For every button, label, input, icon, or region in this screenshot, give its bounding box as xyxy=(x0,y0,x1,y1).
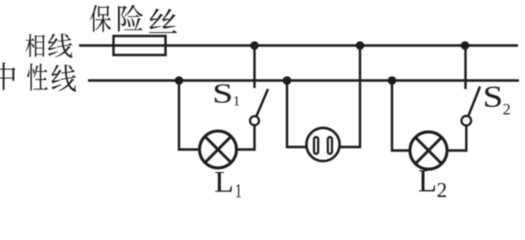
wire: socket to live xyxy=(340,46,361,148)
wire: neutral to lamp L2 xyxy=(392,81,410,151)
lamp L1 xyxy=(200,131,237,168)
wire: live line (相线) xyxy=(79,44,518,46)
wire: neutral to socket xyxy=(287,81,307,148)
wire: switch S1 fixed contact to live xyxy=(253,46,255,89)
wire: neutral to lamp L1 xyxy=(179,81,200,150)
lamp L2 xyxy=(410,132,447,169)
junction live/socket xyxy=(356,41,365,50)
wire: lamp L1 to switch S1 xyxy=(237,125,255,149)
switch S1 xyxy=(250,89,268,125)
label S1 xyxy=(215,84,239,105)
label S2 xyxy=(485,87,510,115)
socket X1 xyxy=(306,128,339,161)
label L1 xyxy=(215,172,241,197)
net label 中性线 (neutral wire) xyxy=(0,63,76,92)
junction neutral/socket xyxy=(283,76,292,85)
label L2 xyxy=(419,170,446,197)
net label 相线 (live wire) xyxy=(25,33,72,57)
wire: neutral line (中性线) xyxy=(88,79,519,81)
junction live/S1 xyxy=(250,41,259,50)
wire: switch S2 fixed contact to live xyxy=(464,46,466,90)
junction neutral/L1 xyxy=(175,76,184,85)
junction live/S2 xyxy=(461,41,470,50)
wire: lamp L2 to switch S2 xyxy=(448,126,467,151)
switch S2 xyxy=(462,87,481,126)
value label 保险丝 (fuse) xyxy=(90,5,177,33)
junction neutral/L2 xyxy=(388,76,397,85)
fuse (保险丝) xyxy=(114,36,166,55)
